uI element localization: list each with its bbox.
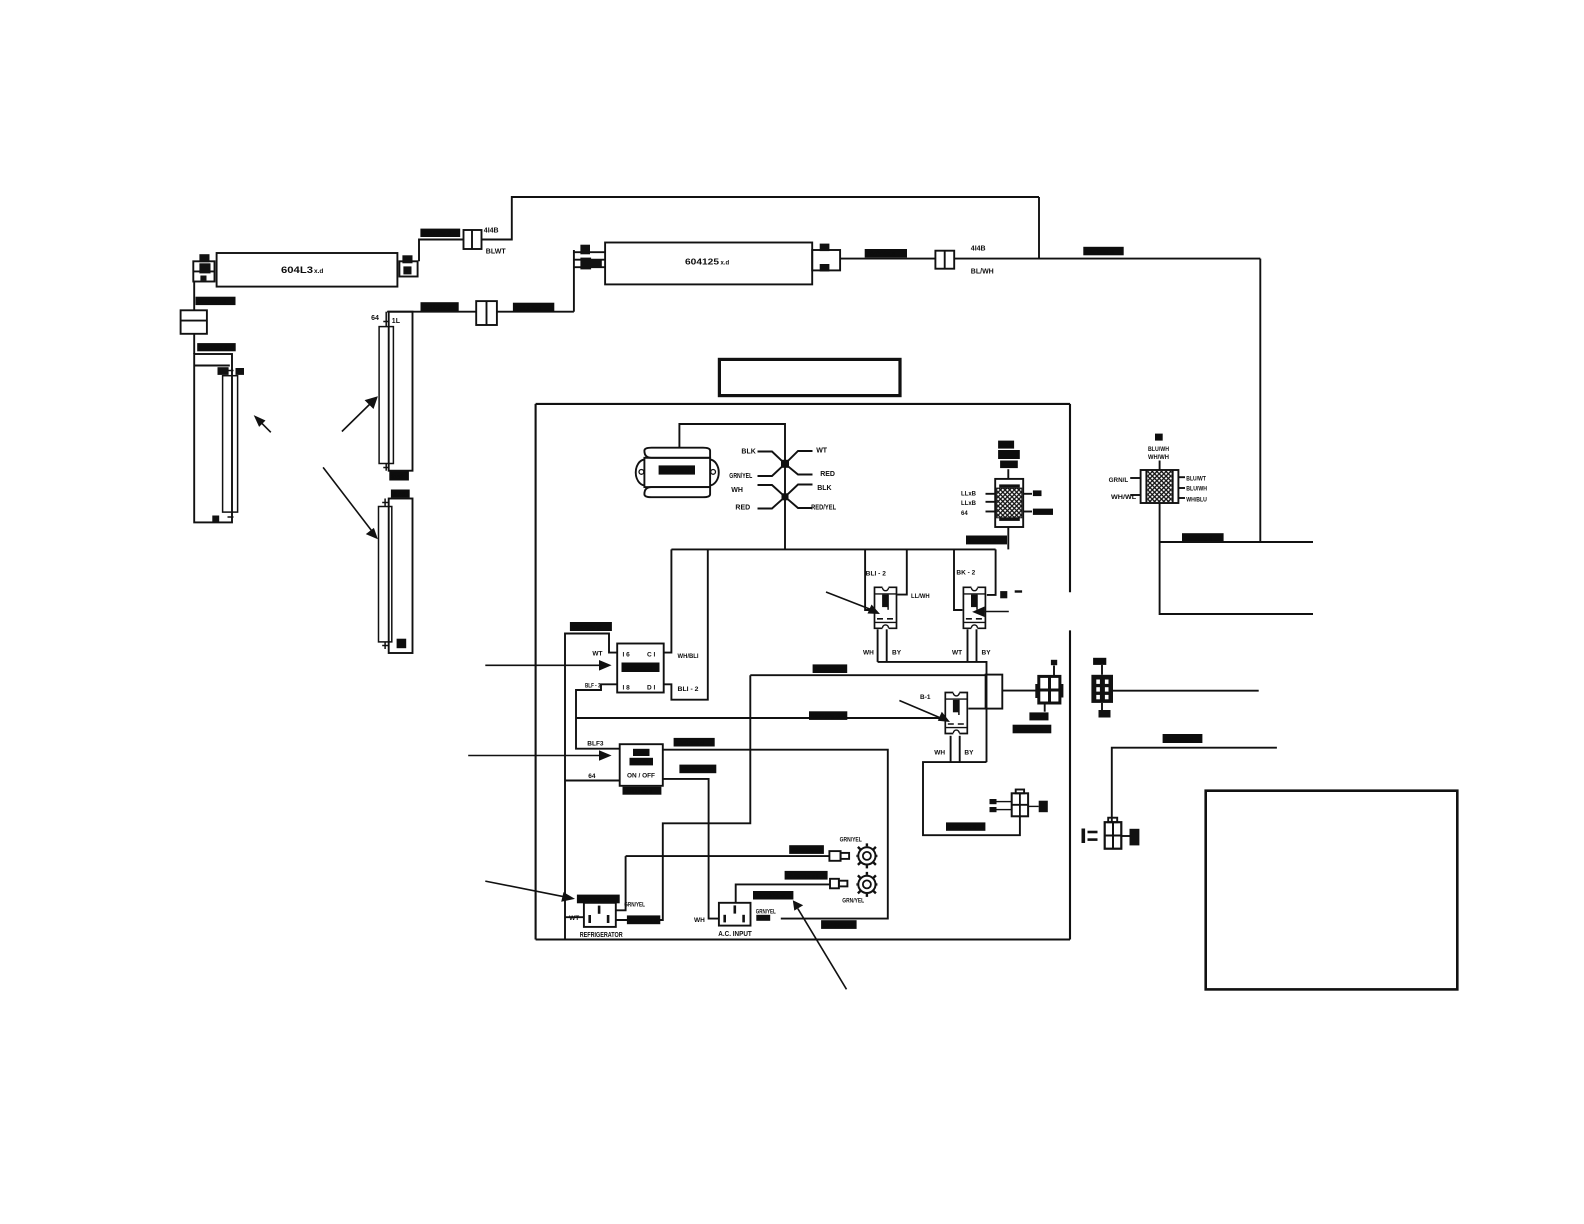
svg-text:LLxB: LLxB <box>961 501 977 507</box>
connector J2 (lamp LT1 right) <box>399 255 417 276</box>
lamp fixture F3 housing <box>389 499 413 654</box>
label BK-2 SW2 <box>956 569 975 576</box>
wire power switch out2 to AC input <box>663 779 719 919</box>
svg-text:64: 64 <box>588 773 596 780</box>
svg-text:BLWT: BLWT <box>486 248 507 255</box>
svg-text:WT: WT <box>952 650 962 657</box>
wire SW1 bottom pair <box>878 629 887 662</box>
lamp tube F3 <box>379 499 392 650</box>
label 6042xx wire <box>513 303 554 313</box>
svg-text:604206s.d: 604206s.d <box>815 668 844 674</box>
switch SW1 <box>875 587 897 628</box>
svg-text:WT: WT <box>592 651 602 658</box>
svg-text:64: 64 <box>371 315 379 322</box>
wire lamp LT2 left drop <box>573 250 575 312</box>
svg-text:WH: WH <box>863 650 874 657</box>
label 4x48 <box>391 490 410 499</box>
label WT RCP1 <box>569 915 579 922</box>
svg-text:BLF - 3: BLF - 3 <box>585 682 601 689</box>
label 604113 below <box>623 787 662 796</box>
svg-text:D I: D I <box>647 685 656 692</box>
label 604208 wire LT2 <box>865 249 907 258</box>
svg-text:604125: 604125 <box>685 257 719 267</box>
lamp tube F1 <box>223 371 238 518</box>
wire SW1 feed <box>865 549 873 610</box>
wire top right drop <box>1038 197 1040 259</box>
wire lower loop to connector <box>923 762 1020 835</box>
svg-text:604114s.sL: 604114s.sL <box>579 898 611 904</box>
label BK1 BKR above CB1 <box>998 441 1020 469</box>
wire relay I6 feed <box>565 634 617 941</box>
connector C5 inline <box>986 675 1003 709</box>
svg-text:GRN/YEL: GRN/YEL <box>729 473 753 480</box>
splice S3 <box>935 251 954 269</box>
label 64 pin <box>371 315 379 322</box>
svg-text:BY: BY <box>982 650 992 657</box>
label GRN/YEL RT1 <box>840 837 862 843</box>
svg-text:WH/WH: WH/WH <box>1148 455 1169 461</box>
wire power switch out1 loop <box>663 750 888 919</box>
wire relay C1 riser <box>664 549 672 652</box>
relay U1 <box>617 644 664 693</box>
svg-text:PWR: PWR <box>635 751 648 757</box>
wire transformer top loop <box>679 424 785 549</box>
svg-text:BLU/WH: BLU/WH <box>1186 487 1207 493</box>
svg-text:BLU/WT: BLU/WT <box>1186 476 1206 482</box>
wire breaker run upper <box>1160 541 1313 543</box>
wire RCP1 gnd riser <box>616 856 626 910</box>
arrow to relay <box>485 660 611 671</box>
wire CB2 top stub <box>1159 461 1161 471</box>
label 604155 wire <box>674 738 715 747</box>
svg-text:GRN/YEL: GRN/YEL <box>840 837 862 843</box>
label REFRIGERATOR <box>580 932 623 939</box>
svg-text:2I43: 2I43 <box>391 474 404 481</box>
svg-text:BK1: BK1 <box>1000 443 1013 449</box>
label WH BY SW1 <box>863 650 902 657</box>
svg-text:604150s.d: 604150s.d <box>423 306 452 312</box>
svg-text:BK - 2: BK - 2 <box>956 569 975 576</box>
wire RCP2 gnd riser <box>736 884 830 902</box>
wire 604208 lower right <box>1112 748 1277 823</box>
svg-text:LLxB: LLxB <box>961 492 977 498</box>
enclosure main box <box>536 404 1070 940</box>
splice S1 <box>464 230 482 249</box>
label WH X2 <box>731 487 743 494</box>
splice X2 <box>758 485 813 509</box>
label 604204 wire right <box>1182 533 1224 542</box>
wire P1 top tick <box>1051 660 1057 676</box>
svg-text:WH: WH <box>731 487 743 494</box>
connector P3 4-pin <box>1105 818 1122 849</box>
svg-text:604155s.d: 604155s.d <box>676 741 705 747</box>
connector J4 (lamp LT2 right) <box>812 244 840 272</box>
connector P4 4-pin (inside) <box>1012 790 1028 817</box>
arrow to power switch <box>468 750 611 761</box>
label WH/WT below P1 <box>1029 712 1048 720</box>
svg-text:ON / OFF: ON / OFF <box>627 774 655 780</box>
lamp fixture LT2 604125 <box>605 243 812 285</box>
label GL8 inside F3 <box>397 639 407 649</box>
svg-text:1L: 1L <box>392 318 401 325</box>
svg-text:SWCH: SWCH <box>631 760 648 766</box>
label 604132 above RCP2 <box>753 891 793 900</box>
svg-text:GRN/L: GRN/L <box>1109 478 1129 484</box>
label BLU-2 SW1 <box>866 570 887 577</box>
svg-text:604076s=l: 604076s=l <box>823 924 852 930</box>
svg-text:604035s.il: 604035s.il <box>1015 728 1044 734</box>
pins CB2 left <box>1130 478 1140 495</box>
big rect (notes box) <box>1206 791 1458 990</box>
svg-text:604049s.il: 604049s.il <box>948 826 977 832</box>
label 604076 wire <box>679 765 716 774</box>
label BLF3 <box>587 740 604 747</box>
label RED X2 <box>735 504 750 511</box>
outlet RCP1 refrigerator <box>584 903 616 927</box>
pins CB1 left <box>986 494 996 512</box>
label RED/YEL X2 <box>811 504 837 511</box>
svg-text:604208s.d: 604208s.d <box>423 232 452 238</box>
label 604204 wire <box>196 297 236 306</box>
label 604209A RCP1 <box>627 915 660 924</box>
label transformer value <box>659 465 695 475</box>
wire power switch lower pin <box>565 780 620 782</box>
svg-text:RED: RED <box>820 471 835 478</box>
svg-text:604206s.d: 604206s.d <box>661 469 690 475</box>
svg-text:604204s.d: 604204s.d <box>198 300 227 306</box>
label FUS above P2 <box>1093 658 1106 666</box>
svg-text:x.d: x.d <box>721 261 730 267</box>
svg-text:604108s.d: 604108s.d <box>811 715 840 721</box>
arrow to F1 <box>254 415 271 432</box>
wire RT1 <box>626 855 830 857</box>
wire pin P4 right stub <box>1028 805 1039 807</box>
svg-text:604208s.d: 604208s.d <box>1085 250 1114 256</box>
splice X1 <box>758 451 813 476</box>
svg-text:WH: WH <box>934 750 945 757</box>
label 604208 wire <box>420 229 460 238</box>
label RD pin right CB1 <box>1033 490 1053 515</box>
label BLU-2 relay <box>678 686 699 693</box>
label 604108 wire run <box>809 711 847 720</box>
label GRN/YEL X1 <box>729 473 753 480</box>
svg-text:WH/BLI: WH/BLI <box>678 653 699 660</box>
svg-text:604030s.sll: 604030s.sll <box>787 874 819 880</box>
label 604209 bus <box>966 536 1007 546</box>
label WT tick SW2 <box>1000 590 1022 598</box>
svg-text:BY: BY <box>892 650 902 657</box>
label 604L3 value <box>281 265 323 276</box>
connector pins F1 top <box>218 367 245 375</box>
connector P1 4-pin <box>1035 676 1063 703</box>
svg-text:4I4B: 4I4B <box>971 246 986 253</box>
label power switch text <box>627 749 655 780</box>
wire S1 to top run <box>482 197 1040 240</box>
label 604125 value <box>685 257 730 267</box>
label relay pins <box>623 652 656 692</box>
connector RT1 lug <box>829 851 849 861</box>
label WT relay pin <box>592 651 602 658</box>
label BLxB pins left CB1 <box>961 492 977 517</box>
wire SW3 out stub <box>968 708 985 710</box>
svg-text:BLI - 2: BLI - 2 <box>866 570 887 577</box>
svg-text:WH: WH <box>694 917 705 924</box>
svg-text:GRN/YEL: GRN/YEL <box>842 899 864 905</box>
svg-text:A.C. INPUT: A.C. INPUT <box>718 931 752 938</box>
label BLF-3 relay <box>585 682 601 689</box>
svg-text:604208s.d: 604208s.d <box>1165 738 1194 744</box>
label 604035 <box>1013 725 1052 734</box>
connector RT2 lug <box>830 879 847 889</box>
arrow to F3 <box>323 467 378 539</box>
label GRN/L pin CB2 <box>1109 478 1137 501</box>
label 604208 above relay <box>570 622 612 632</box>
wire branch lamp switch run <box>576 717 944 719</box>
svg-text:RED/YEL: RED/YEL <box>811 504 837 511</box>
wire SW1 out riser <box>897 549 907 594</box>
svg-text:WT: WT <box>816 448 828 455</box>
svg-text:604209s.il: 604209s.il <box>968 539 997 545</box>
svg-text:GRN/YEL: GRN/YEL <box>624 903 645 909</box>
label 604xx6 wire RCP2 <box>821 920 857 929</box>
wire pins P4 left stubs <box>997 802 1012 810</box>
label 4x4B right of S3 <box>971 246 986 253</box>
wire bus2 top run <box>750 674 985 676</box>
svg-text:WT: WT <box>569 915 579 922</box>
wire bus2 harness <box>616 675 751 920</box>
label BL/WH right of S3 <box>971 268 994 275</box>
wire SW2 feed <box>954 549 962 610</box>
wire C5 to P1 <box>1002 690 1036 692</box>
svg-text:604.2 %d: 604.2 %d <box>515 306 541 312</box>
label RED X1 <box>820 471 835 478</box>
wire RCP1 left stub <box>565 916 584 918</box>
svg-text:BLK: BLK <box>741 449 755 456</box>
svg-text:x.d: x.d <box>314 268 323 275</box>
svg-text:604L3: 604L3 <box>281 265 313 276</box>
wire harness run (mid lamps) <box>387 311 574 313</box>
wire right drop to breaker run <box>1259 259 1261 542</box>
label 604204 wire 2 <box>197 343 236 352</box>
svg-text:B-1: B-1 <box>920 694 931 701</box>
pins P4 left <box>990 799 997 812</box>
label BLK X2 <box>817 485 831 492</box>
label 604034 RT1 <box>789 845 824 854</box>
svg-text:604208s.d: 604208s.d <box>867 252 896 258</box>
label 4x4B right of S1 <box>484 227 499 234</box>
label 64 pin power switch <box>588 773 596 780</box>
label 604114 above RCP1 <box>577 895 620 904</box>
connector J1 (lamp LT1 left) <box>193 254 214 281</box>
wire relay D1 loop <box>664 549 708 699</box>
label 604206 bus2 <box>813 664 848 673</box>
svg-text:I 6: I 6 <box>623 652 631 659</box>
label WT BY SW2 <box>952 650 991 657</box>
svg-text:BY: BY <box>964 750 974 757</box>
svg-text:WH/BLU: WH/BLU <box>1186 498 1207 504</box>
label 604208 lower right <box>1163 734 1203 744</box>
lamp fixture F1 housing <box>194 354 232 522</box>
connector P2 6-pin fuse <box>1091 675 1113 703</box>
power switch SW4 <box>620 744 663 786</box>
arrow to F2 <box>342 396 378 431</box>
wire switch return bus <box>878 662 987 762</box>
arrow to SW2 <box>972 607 1009 618</box>
lamp fixture LT1 604L3 <box>217 253 398 287</box>
label BL bottom of F1 <box>212 516 219 522</box>
label H pins P3 <box>1082 829 1098 844</box>
svg-text:BLK: BLK <box>817 485 831 492</box>
connector J3 (lamp LT2 left) <box>574 245 605 270</box>
svg-text:604076s.d: 604076s.d <box>681 768 710 774</box>
arrow to ac input label <box>793 900 847 989</box>
label 604150 wire <box>421 302 459 311</box>
wire B1 to fixture F1 <box>193 334 195 354</box>
arrow to refrigerator outlet <box>485 881 575 902</box>
label 604049 P4 <box>946 822 985 831</box>
label GRN/YEL RCP2 <box>756 909 776 920</box>
svg-text:604132s.sL: 604132s.sL <box>755 894 787 900</box>
svg-text:604208s.d: 604208s.d <box>572 626 601 632</box>
label WH/BLU relay <box>678 653 699 660</box>
wire lamp LT2 to right <box>840 258 1260 260</box>
bus wire main <box>671 548 995 550</box>
svg-text:604209s.d: 604209s.d <box>629 919 658 925</box>
wire lamp LT1 left drop <box>193 282 195 311</box>
svg-text:604529s=L: 604529s=L <box>623 667 654 673</box>
wire CB2 down run <box>1160 503 1313 614</box>
wire CB1 to bus <box>1007 527 1009 549</box>
wire P2 top stub <box>1101 665 1103 675</box>
connector B1 (2-cell inline) <box>181 310 207 334</box>
ring terminal RT1 <box>856 843 877 868</box>
svg-text:C I: C I <box>647 652 656 659</box>
label BLU/WH SW1 <box>911 593 930 600</box>
svg-text:GRN/YEL: GRN/YEL <box>756 909 776 915</box>
svg-text:4I4B: 4I4B <box>484 227 499 234</box>
label WH BY SW3 <box>934 750 974 757</box>
svg-text:REFRIGERATOR: REFRIGERATOR <box>580 932 623 939</box>
pin P4 right <box>1039 801 1048 813</box>
transformer T1 <box>636 448 719 498</box>
breaker CB2 (hatched, outside) <box>1141 470 1179 503</box>
lamp tube F2 <box>379 312 393 471</box>
label relay part number <box>622 663 660 673</box>
switch SW2 <box>963 587 985 628</box>
label 2x43 <box>389 472 409 482</box>
pins CB1 right <box>1023 494 1032 512</box>
svg-text:WH/WL: WH/WL <box>1111 495 1137 501</box>
wire SW3 bottom pair <box>951 736 960 762</box>
wire SW2 out riser <box>987 549 996 595</box>
label 1L pin <box>392 318 401 325</box>
svg-text:BLF3: BLF3 <box>587 740 604 747</box>
label BLWT right of S1 <box>486 248 507 255</box>
pin tick P3 right <box>1130 829 1140 846</box>
svg-text:BLI - 2: BLI - 2 <box>678 686 699 693</box>
label WT X1 <box>816 448 828 455</box>
wire lamp LT1 right riser <box>419 240 464 262</box>
svg-text:64: 64 <box>961 511 968 517</box>
label 604208 far right <box>1083 247 1123 256</box>
outlet RCP2 ac input <box>719 903 751 926</box>
svg-text:FUS: FUS <box>1094 660 1105 666</box>
svg-text:604113s.d: 604113s.d <box>625 790 654 796</box>
title box <box>719 359 900 395</box>
breaker CB1 (hatched, in box) <box>995 469 1023 527</box>
label BLK X1 <box>741 449 755 456</box>
ring terminal RT2 <box>856 872 877 897</box>
splice S2 <box>476 301 497 325</box>
svg-text:RED: RED <box>735 504 750 511</box>
wire P3 right stub <box>1121 835 1129 837</box>
svg-text:BLU/WH: BLU/WH <box>1148 447 1169 453</box>
switch SW3 <box>945 693 967 734</box>
svg-text:4I48: 4I48 <box>393 492 406 499</box>
lamp fixture F2 housing <box>389 312 413 471</box>
wire P2 bottom stub <box>1099 703 1111 718</box>
label B-1 SW3 <box>920 694 931 701</box>
arrow to SW3 <box>899 701 950 723</box>
wire P2 out <box>1113 690 1259 692</box>
wire P1 bottom stub <box>1044 703 1046 711</box>
label BK above CB2 <box>1148 434 1169 461</box>
svg-text:LL/WH: LL/WH <box>911 593 930 600</box>
wire relay BLF3 to power switch <box>576 684 620 748</box>
label GRN/YEL RT2 <box>842 899 864 905</box>
label WH RCP2 <box>694 917 705 924</box>
arrow to SW1 <box>826 592 880 614</box>
wire SW2 bottom pair <box>968 629 977 662</box>
svg-text:I 8: I 8 <box>623 685 631 692</box>
label 604030 RT2 <box>785 871 828 880</box>
pins CB2 right <box>1178 477 1185 498</box>
label A.C. INPUT <box>718 931 752 938</box>
svg-text:BL/WH: BL/WH <box>971 268 994 275</box>
svg-text:604204s.d: 604204s.d <box>199 346 228 352</box>
label BLU/WT pins CB2 <box>1186 476 1207 503</box>
svg-text:604034s=l: 604034s=l <box>791 849 820 855</box>
label GRN/YEL RCP1 <box>624 903 645 909</box>
